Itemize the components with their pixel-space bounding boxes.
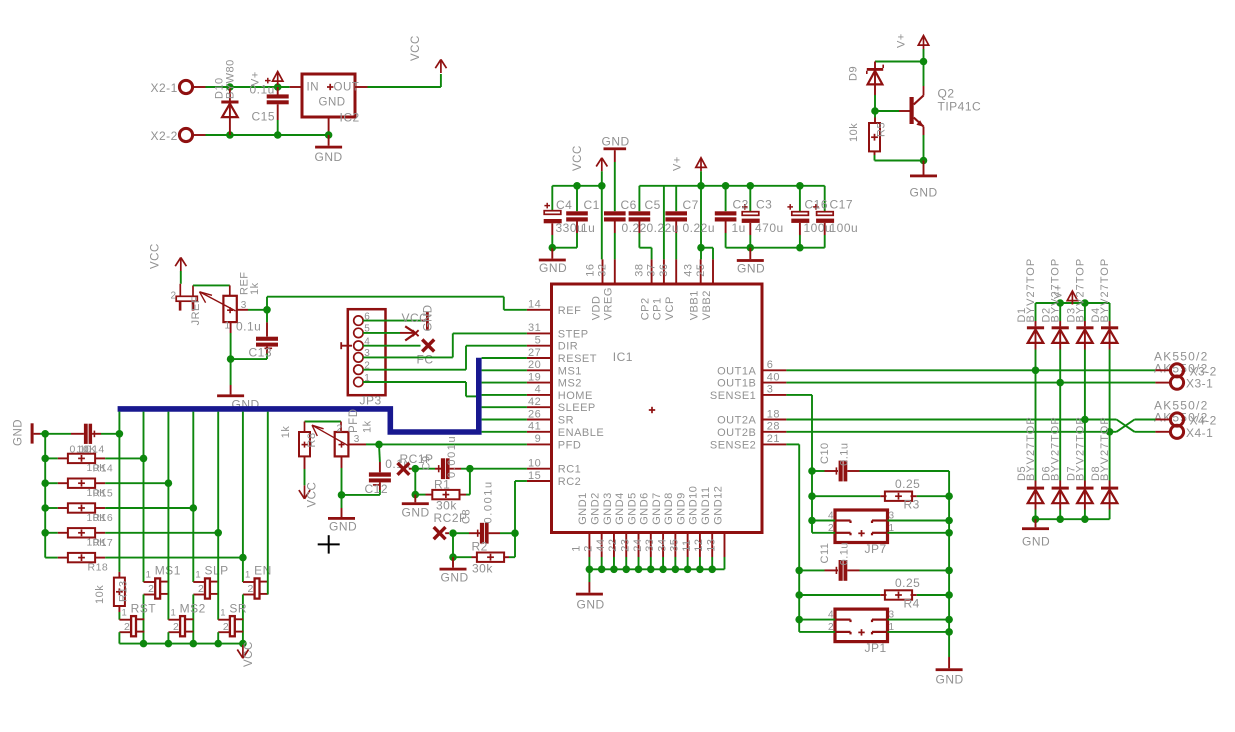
svg-text:GND: GND: [441, 570, 469, 584]
svg-text:GND: GND: [936, 673, 964, 687]
svg-text:3: 3: [354, 434, 360, 445]
svg-text:VREG: VREG: [603, 287, 615, 320]
svg-text:GND4: GND4: [614, 492, 626, 525]
svg-text:VCC: VCC: [410, 35, 422, 61]
svg-text:D10: D10: [214, 77, 226, 99]
svg-text:0.1u: 0.1u: [236, 319, 261, 333]
svg-text:GND: GND: [315, 150, 343, 164]
svg-text:2: 2: [173, 621, 179, 633]
svg-text:D9: D9: [848, 66, 860, 81]
svg-text:MS2: MS2: [180, 601, 206, 615]
svg-text:34: 34: [656, 539, 668, 552]
svg-text:GND6: GND6: [639, 492, 651, 525]
svg-text:10k: 10k: [848, 123, 860, 142]
svg-text:30k: 30k: [472, 561, 493, 575]
svg-text:C2: C2: [733, 197, 749, 211]
svg-text:1k: 1k: [280, 426, 292, 439]
svg-text:X2-2: X2-2: [151, 129, 178, 143]
svg-text:0.22u: 0.22u: [683, 221, 716, 235]
svg-text:C4: C4: [556, 198, 572, 212]
svg-text:RESET: RESET: [558, 353, 597, 365]
svg-text:GND9: GND9: [675, 492, 687, 525]
svg-text:GND11: GND11: [700, 486, 712, 524]
svg-text:JP7: JP7: [865, 542, 887, 556]
svg-text:BYV27TOP: BYV27TOP: [1025, 258, 1037, 323]
svg-text:1: 1: [220, 607, 226, 618]
svg-text:C16: C16: [805, 197, 829, 211]
svg-text:IC1: IC1: [613, 350, 633, 364]
svg-text:21: 21: [767, 433, 780, 445]
svg-text:GND: GND: [423, 304, 435, 331]
svg-text:0.25: 0.25: [895, 477, 920, 491]
svg-text:GND12: GND12: [712, 486, 724, 525]
svg-text:44: 44: [595, 539, 607, 552]
svg-text:R18: R18: [88, 562, 109, 574]
svg-text:IN: IN: [307, 82, 320, 94]
svg-text:14: 14: [528, 299, 541, 311]
svg-text:27: 27: [528, 347, 541, 359]
svg-text:C3: C3: [756, 197, 772, 211]
svg-text:11: 11: [681, 539, 693, 551]
svg-text:10: 10: [528, 458, 541, 470]
svg-text:19: 19: [528, 371, 541, 383]
svg-text:C1: C1: [584, 198, 600, 212]
svg-text:DIR: DIR: [558, 341, 578, 353]
svg-text:GND: GND: [329, 520, 357, 534]
svg-text:C8: C8: [461, 509, 473, 524]
svg-text:C5: C5: [645, 198, 661, 212]
svg-text:3: 3: [767, 384, 774, 396]
svg-text:GND: GND: [402, 506, 430, 520]
svg-text:VCC: VCC: [572, 145, 584, 171]
svg-text:PFD: PFD: [558, 439, 582, 451]
svg-text:C7: C7: [683, 198, 699, 212]
svg-text:BYV27TOP: BYV27TOP: [1025, 416, 1037, 481]
svg-text:1u: 1u: [732, 221, 746, 235]
svg-text:2: 2: [171, 291, 177, 302]
svg-text:GND: GND: [602, 134, 630, 148]
svg-text:BYW80: BYW80: [225, 59, 237, 99]
svg-text:JREF: JREF: [190, 296, 202, 326]
svg-text:C9: C9: [421, 455, 433, 470]
svg-text:SLEEP: SLEEP: [558, 402, 596, 414]
svg-text:0.22u: 0.22u: [647, 221, 680, 235]
svg-text:1: 1: [195, 570, 201, 581]
svg-text:R13: R13: [118, 580, 130, 602]
svg-text:31: 31: [528, 322, 541, 334]
svg-text:MS1: MS1: [558, 365, 582, 377]
svg-text:VBB1: VBB1: [689, 290, 701, 320]
svg-text:0.001u: 0.001u: [446, 435, 458, 478]
svg-text:1: 1: [122, 607, 128, 618]
svg-text:0.22: 0.22: [622, 221, 647, 235]
svg-text:C6: C6: [621, 198, 637, 212]
svg-text:GND: GND: [13, 419, 25, 446]
svg-text:2: 2: [198, 583, 204, 595]
svg-text:X3-1: X3-1: [1186, 377, 1213, 391]
svg-text:OUT2A: OUT2A: [717, 415, 756, 427]
svg-text:CP1: CP1: [652, 297, 664, 320]
svg-text:0.1u: 0.1u: [250, 83, 275, 97]
svg-text:1k: 1k: [362, 420, 374, 433]
svg-text:GND: GND: [577, 598, 605, 612]
svg-text:R14: R14: [93, 463, 114, 475]
svg-text:R16: R16: [93, 512, 114, 524]
svg-text:24: 24: [632, 539, 644, 552]
svg-text:0.25: 0.25: [895, 576, 920, 590]
svg-text:VCC: VCC: [150, 243, 162, 269]
svg-text:RC2: RC2: [558, 476, 582, 488]
svg-text:JP1: JP1: [865, 641, 887, 655]
svg-text:BYV27TOP: BYV27TOP: [1074, 258, 1086, 323]
svg-text:6: 6: [767, 359, 774, 371]
svg-text:OUT1A: OUT1A: [717, 365, 756, 377]
svg-text:35: 35: [669, 539, 681, 552]
svg-text:2: 2: [223, 621, 229, 633]
svg-text:2: 2: [337, 424, 343, 435]
svg-text:REF: REF: [558, 305, 582, 317]
svg-text:GND2: GND2: [589, 492, 601, 525]
svg-text:VCP: VCP: [664, 296, 676, 320]
svg-text:R4: R4: [904, 596, 920, 610]
svg-text:C15: C15: [252, 110, 276, 124]
svg-text:R8: R8: [306, 432, 318, 447]
svg-text:2: 2: [124, 621, 130, 633]
svg-text:18: 18: [767, 408, 780, 420]
svg-text:28: 28: [767, 421, 780, 433]
svg-text:1k: 1k: [249, 282, 261, 295]
svg-text:4: 4: [535, 384, 542, 396]
svg-text:26: 26: [528, 408, 541, 420]
svg-text:1u: 1u: [581, 221, 595, 235]
svg-text:R3: R3: [904, 498, 920, 512]
svg-text:IC2: IC2: [340, 111, 360, 125]
svg-text:STEP: STEP: [558, 328, 589, 340]
svg-text:20: 20: [528, 359, 541, 371]
svg-text:330u: 330u: [556, 221, 585, 235]
svg-text:ENABLE: ENABLE: [558, 427, 604, 439]
svg-text:GND10: GND10: [688, 486, 700, 525]
svg-text:43: 43: [683, 264, 695, 277]
svg-text:10k: 10k: [94, 585, 106, 604]
svg-text:OUT1B: OUT1B: [717, 378, 756, 390]
svg-text:0.1u: 0.1u: [839, 442, 851, 465]
svg-text:VBB2: VBB2: [701, 290, 713, 320]
svg-text:VCC: VCC: [243, 641, 255, 667]
svg-text:SLP: SLP: [205, 564, 229, 578]
svg-text:X4-1: X4-1: [1186, 426, 1213, 440]
svg-text:13: 13: [705, 539, 717, 552]
svg-text:RC1: RC1: [558, 464, 582, 476]
svg-text:23: 23: [620, 539, 632, 552]
svg-text:C10: C10: [819, 442, 831, 464]
svg-text:X2-1: X2-1: [151, 81, 178, 95]
svg-text:25: 25: [695, 264, 707, 277]
svg-text:12: 12: [693, 539, 705, 552]
svg-text:JP3: JP3: [360, 394, 382, 408]
svg-text:BYV27TOP: BYV27TOP: [1099, 258, 1111, 323]
svg-text:GND: GND: [737, 261, 765, 275]
svg-text:2: 2: [248, 583, 254, 595]
svg-text:FC: FC: [417, 353, 434, 367]
svg-text:MS2: MS2: [558, 378, 582, 390]
svg-text:C11: C11: [819, 543, 831, 564]
svg-text:VCC: VCC: [307, 482, 319, 508]
svg-text:SENSE1: SENSE1: [710, 390, 756, 402]
svg-text:15: 15: [528, 470, 541, 482]
svg-text:R17: R17: [93, 537, 114, 549]
svg-text:100u: 100u: [830, 221, 859, 235]
svg-text:CP2: CP2: [639, 297, 651, 320]
svg-text:BYV27TOP: BYV27TOP: [1099, 416, 1111, 481]
svg-text:36: 36: [658, 264, 670, 277]
svg-text:SENSE2: SENSE2: [710, 439, 756, 451]
svg-text:41: 41: [528, 421, 541, 433]
svg-text:EN: EN: [254, 564, 272, 578]
svg-text:V+: V+: [896, 33, 908, 48]
svg-text:BYV27TOP: BYV27TOP: [1074, 416, 1086, 481]
svg-text:32: 32: [597, 264, 609, 277]
svg-text:HOME: HOME: [558, 390, 593, 402]
svg-text:R15: R15: [93, 487, 114, 499]
svg-text:16: 16: [584, 264, 596, 277]
svg-text:0.001u: 0.001u: [483, 480, 495, 523]
svg-text:40: 40: [767, 371, 780, 383]
svg-text:0.1u: 0.1u: [839, 542, 851, 565]
svg-text:RST: RST: [131, 601, 157, 615]
svg-text:SR: SR: [558, 415, 574, 427]
svg-text:V+: V+: [672, 156, 684, 171]
svg-text:1: 1: [171, 607, 177, 618]
svg-text:37: 37: [646, 264, 658, 277]
svg-text:GND: GND: [539, 261, 567, 275]
svg-text:42: 42: [528, 396, 541, 408]
svg-text:22: 22: [607, 539, 619, 552]
svg-text:2: 2: [583, 545, 595, 552]
svg-text:R1: R1: [434, 477, 450, 491]
svg-text:1: 1: [146, 570, 152, 581]
svg-text:C13: C13: [249, 346, 273, 360]
svg-text:GND5: GND5: [626, 492, 638, 525]
svg-text:GND1: GND1: [577, 492, 589, 525]
svg-text:SR: SR: [229, 601, 247, 615]
svg-text:TIP41C: TIP41C: [938, 100, 982, 114]
svg-text:OUT2B: OUT2B: [717, 427, 756, 439]
svg-text:R2: R2: [472, 539, 488, 553]
svg-text:5: 5: [535, 335, 542, 347]
svg-text:GND8: GND8: [663, 492, 675, 525]
svg-text:1: 1: [570, 545, 582, 552]
svg-text:PFD: PFD: [348, 409, 360, 434]
svg-text:BYV27TOP: BYV27TOP: [1050, 258, 1062, 323]
svg-text:33: 33: [644, 539, 656, 552]
svg-text:GND: GND: [319, 97, 346, 109]
svg-text:GND3: GND3: [602, 492, 614, 525]
svg-text:470u: 470u: [755, 221, 784, 235]
svg-text:VDD: VDD: [590, 296, 602, 321]
svg-text:GND: GND: [1022, 534, 1050, 548]
svg-text:R5: R5: [876, 122, 888, 137]
svg-text:100u: 100u: [804, 221, 833, 235]
svg-text:GND7: GND7: [651, 492, 663, 525]
svg-text:GND: GND: [910, 186, 938, 200]
svg-text:9: 9: [535, 433, 542, 445]
svg-text:2: 2: [148, 583, 154, 595]
svg-text:Q2: Q2: [938, 87, 955, 101]
svg-text:38: 38: [633, 264, 645, 277]
svg-text:C12: C12: [365, 482, 389, 496]
svg-text:C17: C17: [830, 197, 854, 211]
svg-text:1: 1: [245, 570, 251, 581]
svg-text:BYV27TOP: BYV27TOP: [1050, 416, 1062, 481]
